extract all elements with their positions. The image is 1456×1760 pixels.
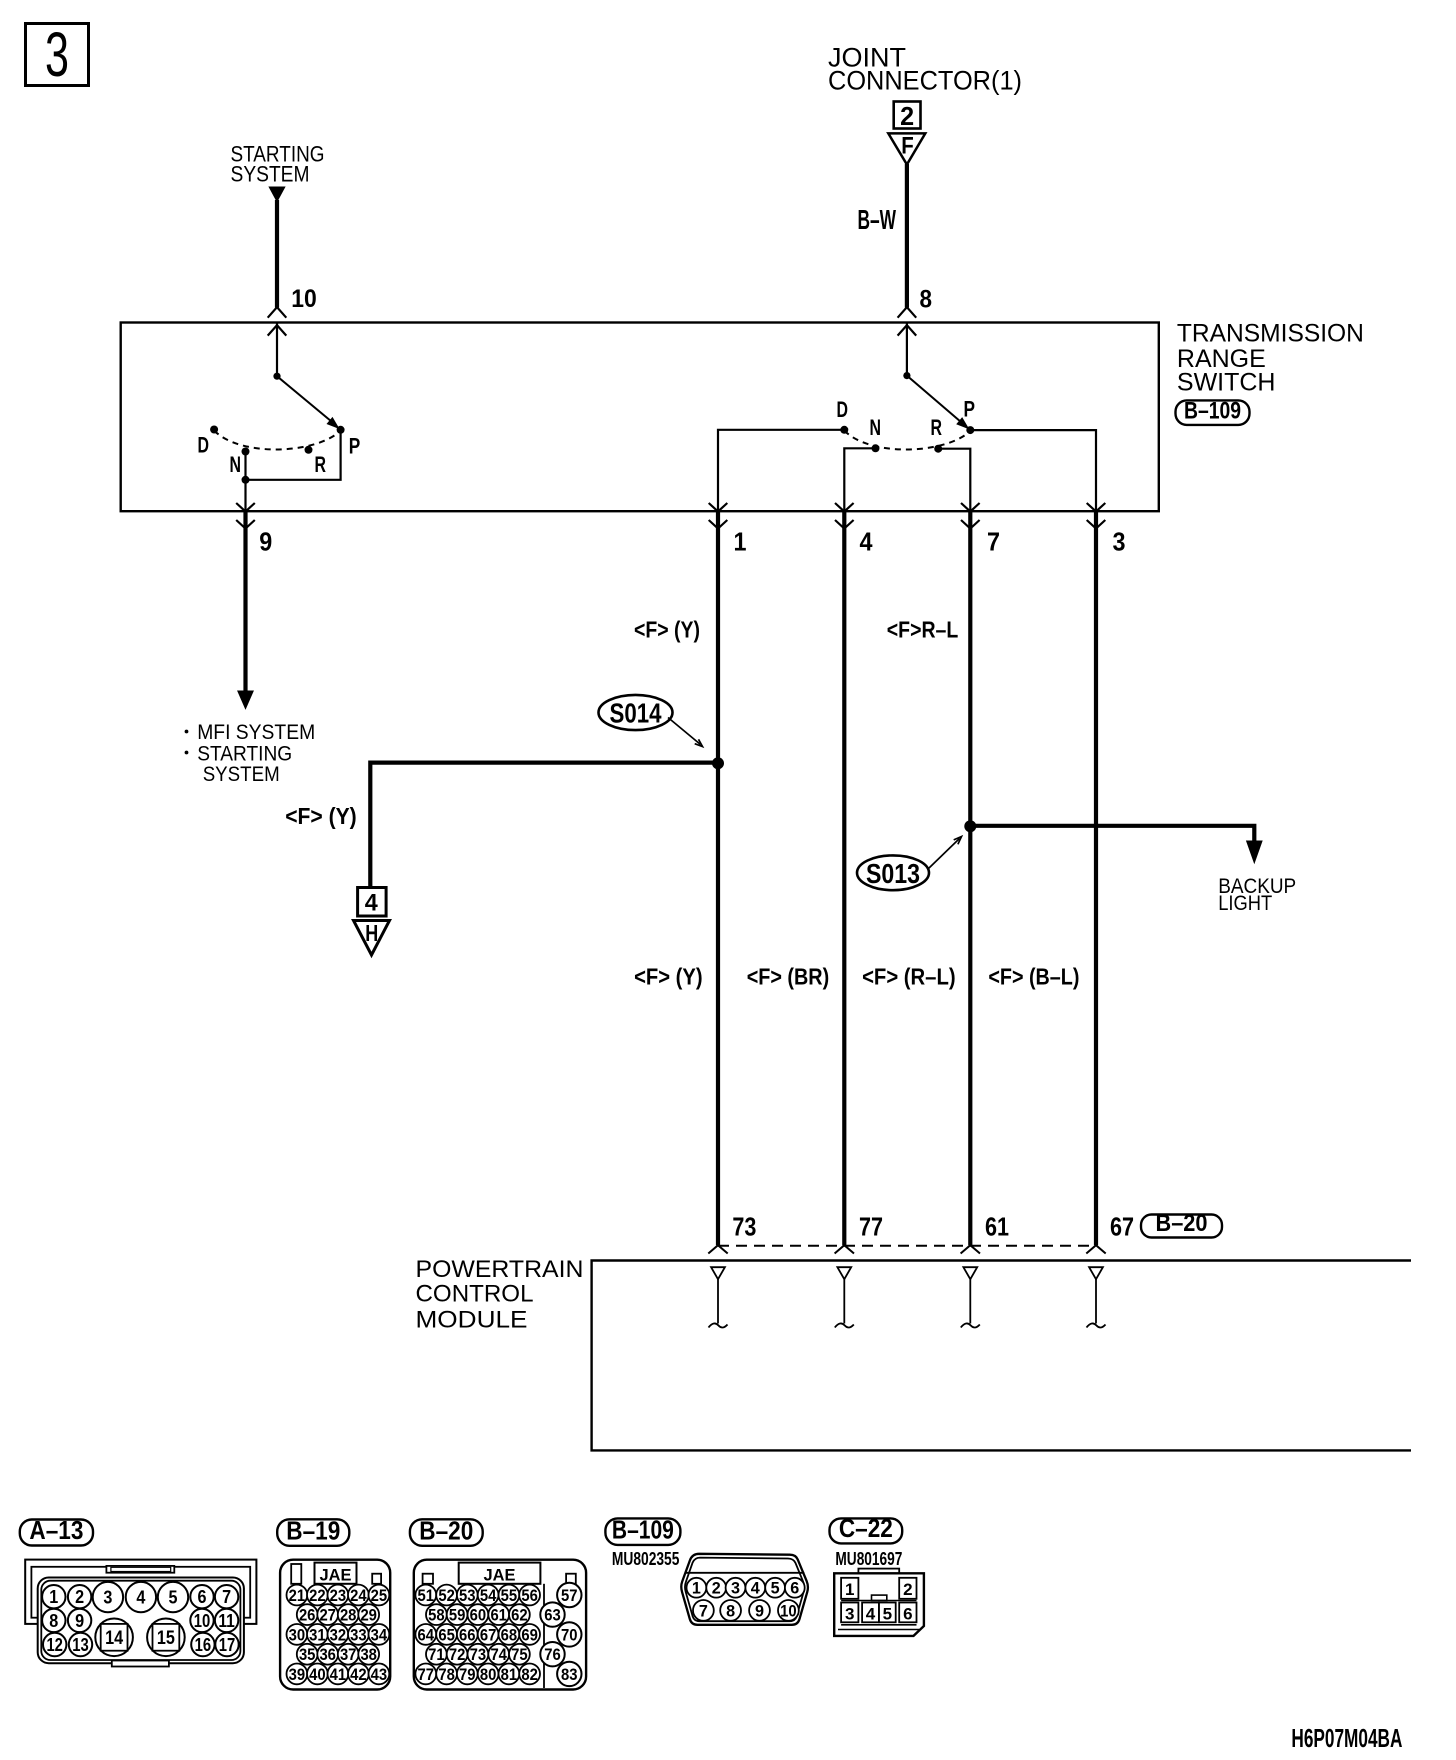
left switch lever to P	[277, 376, 332, 421]
svg-text:55: 55	[501, 1587, 518, 1605]
PCM internal continuation symbol	[711, 1267, 725, 1279]
B-109 pins	[687, 1578, 707, 1598]
svg-text:4: 4	[365, 890, 379, 917]
svg-text:76: 76	[544, 1645, 561, 1664]
svg-text:41: 41	[330, 1666, 347, 1684]
svg-text:8: 8	[726, 1602, 735, 1620]
svg-text:C–22: C–22	[839, 1513, 893, 1543]
svg-text:4: 4	[751, 1580, 761, 1598]
wire pin 10 to left switch pivot	[276, 323, 278, 377]
joint connector F triangle	[888, 133, 925, 164]
svg-text:33: 33	[350, 1626, 367, 1644]
svg-text:77: 77	[859, 1212, 883, 1242]
svg-text:7: 7	[699, 1602, 708, 1620]
pin 8 connector chevrons	[898, 307, 917, 318]
svg-text:7: 7	[987, 527, 1000, 557]
svg-text:D: D	[837, 397, 849, 422]
svg-text:3: 3	[845, 1605, 854, 1624]
svg-text:SWITCH: SWITCH	[1177, 369, 1276, 397]
svg-text:CONTROL: CONTROL	[416, 1281, 534, 1308]
PCM pin chevron	[835, 1245, 854, 1253]
ground connector 4 box	[358, 888, 387, 917]
junction below N	[242, 476, 250, 484]
connector label B-109	[605, 1518, 680, 1545]
svg-text:70: 70	[561, 1625, 578, 1644]
wire S014 branch to ground	[370, 763, 718, 887]
arrow S013 to junction	[928, 839, 960, 870]
svg-text:JAE: JAE	[320, 1566, 352, 1585]
svg-text:A–13: A–13	[29, 1515, 83, 1545]
svg-text:MU801697: MU801697	[835, 1549, 902, 1569]
svg-text:R: R	[315, 452, 327, 477]
svg-text:60: 60	[470, 1606, 487, 1624]
svg-text:3: 3	[45, 20, 69, 90]
wire pin 1 to PCM pin 73	[716, 512, 720, 1245]
A-13 pins	[42, 1585, 65, 1608]
svg-text:STARTING: STARTING	[197, 742, 292, 765]
wire R right and down to pin 7	[938, 449, 970, 511]
arrow from starting system	[269, 187, 285, 202]
svg-text:<F> (R–L): <F> (R–L)	[862, 964, 956, 990]
arrow S014 to junction	[668, 718, 701, 745]
dashed connector line at PCM	[718, 1245, 1096, 1247]
label (B-109)	[1176, 400, 1250, 425]
svg-text:61: 61	[985, 1212, 1009, 1242]
svg-text:61: 61	[490, 1606, 507, 1624]
svg-text:B–109: B–109	[612, 1514, 674, 1544]
connector label A-13	[20, 1520, 93, 1546]
junction S014	[712, 757, 724, 769]
svg-text:6: 6	[198, 1587, 207, 1607]
left switch dashed arc	[214, 431, 341, 450]
svg-text:1: 1	[734, 527, 747, 557]
svg-text:34: 34	[371, 1626, 388, 1644]
wire from starting system to pin 10	[275, 200, 279, 308]
wire N to junction	[244, 452, 246, 480]
svg-text:<F> (Y): <F> (Y)	[285, 803, 357, 829]
svg-text:6: 6	[903, 1605, 912, 1624]
PCM pin chevron	[708, 1245, 727, 1253]
svg-text:5: 5	[771, 1580, 780, 1598]
wire pin 3 to PCM pin 67	[1094, 512, 1098, 1245]
svg-text:63: 63	[544, 1606, 561, 1625]
svg-text:8: 8	[920, 286, 933, 314]
svg-text:73: 73	[470, 1646, 487, 1664]
svg-text:29: 29	[360, 1606, 377, 1624]
svg-text:23: 23	[330, 1587, 347, 1605]
PCM pin chevron	[961, 1245, 980, 1253]
svg-text:10: 10	[194, 1611, 211, 1631]
svg-text:MODULE: MODULE	[416, 1306, 528, 1333]
right switch contact R	[934, 445, 942, 453]
svg-text:H6P07M04BA: H6P07M04BA	[1291, 1723, 1402, 1753]
svg-text:30: 30	[289, 1626, 306, 1644]
svg-text:LIGHT: LIGHT	[1218, 892, 1272, 915]
svg-text:CONNECTOR(1): CONNECTOR(1)	[828, 66, 1022, 96]
wire P right and down to pin 3	[970, 430, 1096, 511]
joint connector 2 box	[894, 102, 921, 129]
svg-text:69: 69	[521, 1626, 538, 1644]
right switch lever to P	[907, 376, 961, 422]
svg-text:67: 67	[480, 1626, 497, 1644]
svg-text:POWERTRAIN: POWERTRAIN	[416, 1256, 584, 1283]
svg-text:51: 51	[418, 1587, 435, 1605]
svg-text:P: P	[349, 434, 361, 459]
left switch contact N	[242, 448, 250, 456]
svg-text:73: 73	[732, 1212, 756, 1242]
splice S013 label	[857, 855, 929, 890]
svg-text:B–19: B–19	[286, 1515, 340, 1545]
page number box 3	[26, 24, 89, 86]
svg-text:SYSTEM: SYSTEM	[203, 763, 280, 786]
svg-text:25: 25	[371, 1587, 388, 1605]
svg-text:B–20: B–20	[1156, 1210, 1208, 1237]
right switch contact N	[872, 444, 880, 452]
svg-text:<F>R–L: <F>R–L	[887, 616, 959, 642]
svg-text:R: R	[931, 415, 943, 440]
right switch contact P	[966, 426, 974, 434]
svg-text:58: 58	[428, 1606, 445, 1624]
svg-text:B–20: B–20	[419, 1515, 473, 1545]
svg-text:F: F	[901, 133, 914, 160]
svg-text:72: 72	[449, 1646, 466, 1664]
svg-text:6: 6	[790, 1580, 799, 1598]
svg-text:57: 57	[561, 1586, 578, 1605]
svg-text:<F> (Y): <F> (Y)	[634, 964, 703, 990]
PCM internal continuation symbol	[963, 1267, 977, 1279]
svg-text:3: 3	[103, 1587, 112, 1607]
svg-text:67: 67	[1110, 1212, 1134, 1242]
transmission range switch box B-109	[121, 323, 1159, 512]
svg-text:1: 1	[49, 1587, 58, 1607]
connector C-22 body	[834, 1573, 924, 1636]
svg-text:68: 68	[501, 1626, 518, 1644]
svg-text:24: 24	[350, 1587, 367, 1605]
svg-text:13: 13	[72, 1635, 89, 1655]
svg-text:2: 2	[712, 1580, 721, 1598]
svg-text:21: 21	[289, 1587, 306, 1605]
svg-text:71: 71	[428, 1646, 445, 1664]
wire pin 9 to MFI/STARTING SYSTEM	[243, 512, 247, 693]
svg-text:15: 15	[157, 1628, 175, 1649]
svg-text:40: 40	[309, 1666, 326, 1684]
junction S013	[964, 820, 976, 832]
svg-text:<F> (BR): <F> (BR)	[747, 964, 830, 990]
svg-text:32: 32	[330, 1626, 347, 1644]
svg-text:14: 14	[105, 1628, 123, 1649]
pin 4 connector chevrons	[835, 503, 854, 512]
svg-text:43: 43	[371, 1666, 388, 1684]
svg-text:10: 10	[291, 285, 317, 313]
svg-text:H: H	[365, 920, 378, 946]
svg-text:MFI SYSTEM: MFI SYSTEM	[197, 721, 315, 744]
wire D left and down to pin 1	[718, 430, 844, 511]
svg-text:5: 5	[169, 1587, 178, 1607]
left switch contact P	[337, 426, 345, 434]
B-20 pins	[415, 1585, 436, 1606]
wire junction to pin 9	[244, 480, 246, 511]
svg-text:53: 53	[459, 1587, 476, 1605]
svg-text:1: 1	[692, 1580, 701, 1598]
svg-text:42: 42	[350, 1666, 367, 1684]
svg-text:22: 22	[309, 1587, 326, 1605]
connector B-109 body	[681, 1554, 808, 1625]
svg-text:2: 2	[75, 1587, 84, 1607]
svg-text:59: 59	[449, 1606, 466, 1624]
svg-text:SYSTEM: SYSTEM	[231, 161, 310, 186]
svg-text:75: 75	[511, 1646, 528, 1664]
svg-text:62: 62	[511, 1606, 528, 1624]
wire pin 8 to right switch pivot	[906, 323, 908, 376]
right switch contact D	[840, 426, 848, 434]
connector A-13 body	[25, 1560, 256, 1624]
connector label B-19	[277, 1519, 349, 1546]
svg-text:81: 81	[501, 1666, 518, 1684]
svg-text:3: 3	[1113, 527, 1126, 557]
svg-text:JAE: JAE	[484, 1566, 516, 1585]
svg-text:79: 79	[459, 1666, 476, 1684]
label (B-20) at PCM	[1141, 1215, 1222, 1238]
svg-text:D: D	[198, 433, 210, 458]
svg-text:<F> (Y): <F> (Y)	[634, 616, 700, 642]
svg-text:16: 16	[195, 1635, 212, 1655]
svg-text:4: 4	[866, 1605, 876, 1624]
wire pin 7 to PCM pin 61	[968, 512, 972, 1245]
pin 7 connector chevrons	[961, 503, 980, 512]
svg-text:26: 26	[299, 1606, 316, 1624]
connector B-19 body	[280, 1560, 390, 1690]
left switch contact D	[210, 426, 218, 434]
svg-text:65: 65	[438, 1626, 455, 1644]
svg-text:7: 7	[222, 1587, 231, 1607]
svg-text:52: 52	[438, 1587, 455, 1605]
svg-text:12: 12	[46, 1635, 63, 1655]
pin 9 connector chevrons	[236, 503, 255, 512]
right switch dashed arc	[844, 431, 970, 450]
svg-text:N: N	[230, 452, 242, 477]
svg-text:38: 38	[360, 1646, 377, 1664]
wire P down and left to junction	[246, 430, 341, 480]
powertrain control module box	[592, 1261, 1411, 1451]
svg-text:<F> (B–L): <F> (B–L)	[988, 964, 1079, 990]
svg-text:P: P	[964, 397, 976, 422]
left switch pivot	[273, 373, 280, 380]
label MFI SYSTEM / STARTING SYSTEM	[185, 730, 189, 734]
right switch pivot	[903, 372, 910, 379]
svg-text:1: 1	[845, 1580, 854, 1599]
svg-text:N: N	[870, 415, 882, 440]
svg-text:27: 27	[319, 1606, 336, 1624]
PCM internal continuation symbol	[1089, 1267, 1103, 1279]
svg-text:4: 4	[136, 1587, 145, 1607]
PCM internal continuation symbol	[837, 1267, 851, 1279]
svg-text:80: 80	[480, 1666, 497, 1684]
svg-text:56: 56	[521, 1587, 538, 1605]
svg-text:31: 31	[309, 1626, 326, 1644]
svg-text:78: 78	[438, 1666, 455, 1684]
svg-text:64: 64	[418, 1626, 435, 1644]
svg-text:36: 36	[319, 1646, 336, 1664]
svg-text:B–W: B–W	[858, 204, 897, 235]
wire B-W from joint connector to pin 8	[905, 164, 909, 308]
svg-text:8: 8	[49, 1611, 58, 1631]
pin 10 connector chevrons	[268, 307, 287, 318]
svg-text:2: 2	[900, 101, 914, 131]
svg-text:3: 3	[731, 1580, 740, 1598]
wire S013 branch to backup light	[970, 826, 1254, 843]
connector label C-22	[830, 1518, 903, 1543]
splice S014 label	[599, 695, 673, 730]
left switch contact R	[305, 446, 313, 454]
svg-text:74: 74	[490, 1646, 507, 1664]
svg-text:4: 4	[860, 527, 873, 557]
svg-text:5: 5	[883, 1605, 892, 1624]
wire N left and down to pin 4	[844, 448, 875, 511]
pin 1 connector chevrons	[709, 503, 728, 512]
PCM pin chevron	[1086, 1245, 1105, 1253]
svg-text:S014: S014	[610, 698, 662, 729]
svg-text:82: 82	[521, 1666, 538, 1684]
svg-text:37: 37	[340, 1646, 357, 1664]
svg-text:S013: S013	[866, 858, 920, 889]
svg-text:9: 9	[259, 527, 272, 557]
svg-text:66: 66	[459, 1626, 476, 1644]
svg-text:B–109: B–109	[1184, 397, 1241, 424]
svg-text:28: 28	[340, 1606, 357, 1624]
svg-text:MU802355: MU802355	[612, 1549, 680, 1569]
svg-text:17: 17	[219, 1635, 236, 1655]
svg-text:83: 83	[561, 1665, 578, 1684]
svg-text:54: 54	[480, 1587, 497, 1605]
ground H triangle	[354, 921, 390, 956]
connector B-20 body	[414, 1560, 586, 1690]
svg-text:9: 9	[755, 1602, 764, 1620]
svg-text:35: 35	[299, 1646, 316, 1664]
svg-text:77: 77	[418, 1666, 435, 1684]
connector label B-20	[410, 1519, 483, 1546]
svg-text:11: 11	[218, 1611, 235, 1631]
B-19 pins	[287, 1585, 308, 1606]
pin 3 connector chevrons	[1087, 503, 1106, 512]
svg-text:2: 2	[903, 1580, 912, 1599]
svg-text:TRANSMISSION: TRANSMISSION	[1177, 319, 1364, 347]
svg-text:10: 10	[780, 1602, 797, 1620]
svg-text:9: 9	[75, 1611, 84, 1631]
wire pin 4 to PCM pin 77	[842, 512, 846, 1245]
svg-text:39: 39	[289, 1666, 306, 1684]
